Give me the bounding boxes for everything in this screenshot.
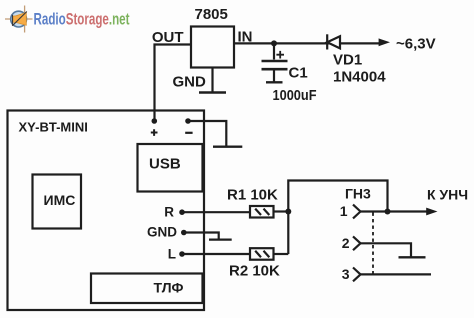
svg-text:R1 10K: R1 10K — [227, 187, 278, 204]
svg-text:L: L — [168, 247, 176, 262]
svg-text:GND: GND — [147, 225, 177, 240]
svg-text:USB: USB — [149, 156, 181, 173]
svg-text:1000uF: 1000uF — [273, 87, 317, 104]
svg-text:~6,3V: ~6,3V — [396, 36, 436, 53]
svg-text:R: R — [164, 205, 174, 220]
svg-text:XY-BT-MINI: XY-BT-MINI — [19, 120, 88, 135]
svg-text:OUT: OUT — [152, 29, 184, 46]
svg-text:GND: GND — [173, 74, 207, 91]
svg-text:ГН3: ГН3 — [345, 186, 371, 202]
svg-text:ИМС: ИМС — [44, 192, 76, 208]
svg-text:RadioStorage.net: RadioStorage.net — [34, 10, 130, 29]
svg-text:IN: IN — [238, 29, 253, 46]
svg-text:1N4004: 1N4004 — [333, 69, 386, 86]
svg-text:R2 10K: R2 10K — [229, 263, 280, 280]
svg-text:C1: C1 — [289, 65, 308, 82]
svg-text:К УНЧ: К УНЧ — [427, 187, 468, 203]
svg-text:7805: 7805 — [195, 6, 228, 23]
svg-text:2: 2 — [342, 235, 350, 251]
svg-text:3: 3 — [342, 266, 350, 282]
svg-text:1: 1 — [340, 203, 348, 219]
svg-text:VD1: VD1 — [333, 52, 362, 69]
svg-text:ТЛФ: ТЛФ — [154, 280, 184, 296]
